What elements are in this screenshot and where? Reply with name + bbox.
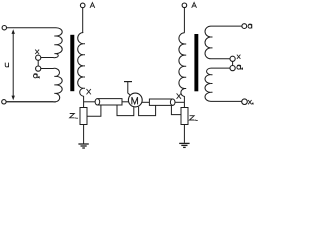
- terminal A (T1 secondary): [80, 3, 85, 8]
- label X (T1 secondary neutral): [87, 89, 91, 94]
- transformer T1 primary lower winding: [6, 68, 62, 102]
- motor frame earth tee: [124, 81, 132, 83]
- wire cable1 to motor: [122, 101, 129, 103]
- label x (T2): [237, 55, 241, 59]
- wire Z2 to ground: [183, 125, 185, 143]
- label x4 (T2): [248, 100, 253, 105]
- transformer T1 primary upper winding: [41, 28, 62, 58]
- ground 2: [179, 143, 189, 147]
- terminal x4 (T2): [242, 99, 248, 105]
- ground 1: [78, 144, 88, 148]
- label A (T2): [192, 3, 197, 8]
- terminal x (T1): [36, 55, 41, 60]
- cable 2 (from motor): [149, 99, 172, 105]
- label u: [5, 63, 8, 68]
- voltage arrow u: [12, 32, 14, 98]
- cable 1 sheath bond to motor frame: [117, 105, 134, 116]
- label X (T2): [177, 93, 181, 98]
- terminal A (T2): [182, 3, 187, 8]
- wire Z1 to ground: [83, 125, 85, 144]
- link x-a4 (T2): [232, 61, 234, 65]
- transformer T2 LV lower winding: [205, 68, 242, 101]
- terminal bottom-left (supply -): [2, 100, 6, 104]
- cable 2 sheath bond to Z2: [171, 105, 181, 114]
- earthing resistor Z1: [80, 108, 87, 125]
- motor frame bond to cable 2 sheath: [139, 105, 156, 115]
- cable 1 (to motor): [95, 99, 100, 105]
- transformer T2 core: [194, 34, 198, 91]
- terminal a4 (T1): [36, 66, 41, 71]
- wire A down to T2 HV winding: [183, 8, 185, 33]
- terminal a4 (T2): [230, 66, 235, 71]
- cable 1 sheath bond to Z1: [87, 105, 101, 116]
- label a4 (T1): [33, 74, 39, 79]
- wire motor to cable 2: [142, 101, 150, 103]
- wire top-left to primary coil: [7, 27, 56, 29]
- wire cable2 to node X2: [175, 101, 184, 103]
- label A (T1): [90, 3, 95, 8]
- label Z2: [190, 116, 198, 121]
- transformer T1 secondary winding: [78, 33, 84, 108]
- label a (T2): [248, 24, 252, 28]
- transformer T1 core: [70, 35, 74, 91]
- terminal x (T2): [230, 56, 235, 61]
- wire A down to secondary: [82, 8, 84, 33]
- label Z1: [70, 114, 78, 119]
- motor M: [128, 93, 142, 107]
- terminal top-left (supply +): [2, 26, 6, 30]
- earthing resistor Z2: [181, 108, 188, 125]
- label x (T1 primary tap): [35, 50, 39, 54]
- transformer T2 LV upper winding: [205, 26, 242, 59]
- link x-a4 (T1): [37, 60, 39, 66]
- wire bottom-left to primary coil: [6, 101, 56, 103]
- node X1: wire to cable 1: [84, 101, 96, 103]
- terminal a (T2): [242, 24, 247, 29]
- transformer T2 HV winding: [179, 33, 185, 108]
- label a4 (T2): [237, 65, 243, 70]
